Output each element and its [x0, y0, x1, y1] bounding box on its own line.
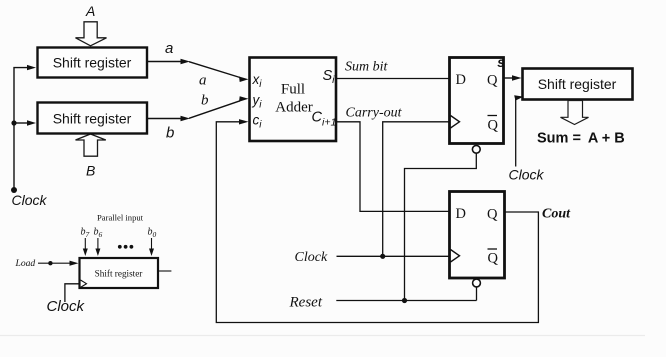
wire b6 arrow — [97, 238, 99, 250]
svg-text:s: s — [497, 55, 505, 70]
arrowhead into x_i — [239, 77, 249, 83]
arrowhead clock into shift register 3 — [514, 95, 523, 100]
junction dot clock/SR2 — [11, 120, 16, 125]
svg-text:Reset: Reset — [289, 295, 323, 311]
svg-text:Parallel input: Parallel input — [97, 213, 144, 223]
arrowhead load into register — [70, 261, 79, 266]
shift register 1 (operand A) — [38, 48, 148, 78]
svg-text:Clock: Clock — [12, 192, 48, 208]
svg-text:a: a — [165, 40, 173, 57]
svg-text:Full: Full — [281, 82, 305, 98]
arrowhead into y_i — [239, 96, 249, 102]
svg-text:Q: Q — [488, 118, 499, 134]
hollow arrow B (parallel load into shift register 2) — [76, 134, 106, 156]
svg-text:b: b — [166, 125, 174, 142]
svg-text:a: a — [199, 73, 207, 89]
svg-text:Shift register: Shift register — [53, 111, 132, 127]
faint page rule — [0, 335, 645, 337]
shift register 4 (parallel-load detail) — [80, 258, 159, 288]
svg-text:Q: Q — [488, 251, 499, 267]
wire Q of FF1 to output shift register — [504, 77, 514, 79]
hollow arrow A (parallel load into shift register 1) — [76, 22, 107, 46]
svg-text:Carry-out: Carry-out — [346, 106, 403, 121]
arrowhead a — [181, 59, 191, 64]
wire load input — [38, 262, 71, 264]
FF1 reset bubble — [472, 145, 480, 153]
svg-text:B: B — [86, 163, 95, 179]
D flip-flop FF2 (carry) — [450, 192, 505, 279]
svg-text:Clock: Clock — [47, 298, 86, 315]
wire sum bit to D of FF1 — [336, 78, 449, 80]
wire clock branch to shift register 2 — [14, 122, 28, 124]
svg-text:Sum = A + B: Sum = A + B — [537, 131, 625, 147]
arrowhead b — [181, 116, 191, 121]
wire b0 arrow — [151, 238, 153, 250]
wire reset to FF2 bubble — [336, 300, 476, 302]
junction dot reset net — [402, 298, 407, 303]
wire FF2 reset bubble to reset net — [476, 287, 478, 301]
wire Q of FF2 (Cout) feedback down — [216, 122, 538, 323]
svg-text:A: A — [85, 3, 95, 19]
wire b7 arrow — [84, 238, 86, 250]
wire clock to FF2 clock input — [337, 255, 450, 257]
wire clock to shift register 3 — [515, 98, 517, 167]
wire b diagonal to adder y input — [189, 101, 240, 119]
shift register 3 (sum output) — [523, 69, 633, 100]
svg-text:Sum bit: Sum bit — [345, 60, 389, 75]
arrow into shift register 2 — [27, 120, 36, 125]
arrowhead into c_i — [239, 119, 249, 124]
wire serial out stub — [158, 270, 171, 272]
svg-text:D: D — [456, 206, 466, 222]
arrowhead into shift register 3 — [512, 75, 522, 80]
svg-text:D: D — [456, 72, 466, 88]
svg-text:Shift register: Shift register — [53, 55, 132, 71]
arrow into shift register 1 — [27, 65, 36, 70]
wire SR1 output — [148, 61, 183, 63]
junction dot on load wire — [48, 261, 52, 265]
full adder U1 — [250, 58, 337, 142]
svg-text:Clock: Clock — [509, 167, 545, 183]
hollow arrow sum output — [561, 101, 589, 125]
svg-text:b: b — [201, 93, 209, 109]
clock wire to shift registers (left) — [14, 68, 28, 190]
svg-text:Q: Q — [487, 207, 498, 223]
wire FF1 reset down to reset net — [405, 153, 477, 300]
svg-text:Load: Load — [15, 258, 36, 269]
svg-text:Cout: Cout — [542, 207, 571, 222]
FF2 reset bubble — [473, 279, 481, 287]
ellipsis dots — [118, 245, 122, 249]
junction dot clock net — [380, 254, 385, 259]
svg-text:Shift register: Shift register — [95, 269, 143, 279]
clock terminal dot — [11, 187, 17, 193]
wire carry-out to D of FF2 — [336, 122, 449, 212]
svg-text:Adder: Adder — [275, 100, 313, 116]
svg-text:Clock: Clock — [295, 250, 328, 265]
wire SR2 output — [148, 118, 183, 120]
wire a diagonal to adder x input — [189, 62, 240, 78]
wire clock into small register — [65, 284, 79, 302]
shift register 2 (operand B) — [38, 103, 148, 134]
svg-text:Shift register: Shift register — [538, 76, 617, 92]
D flip-flop FF1 (sum) — [450, 58, 504, 144]
wire clock up to FF1 clock input — [383, 122, 449, 256]
svg-text:Q: Q — [487, 73, 498, 89]
